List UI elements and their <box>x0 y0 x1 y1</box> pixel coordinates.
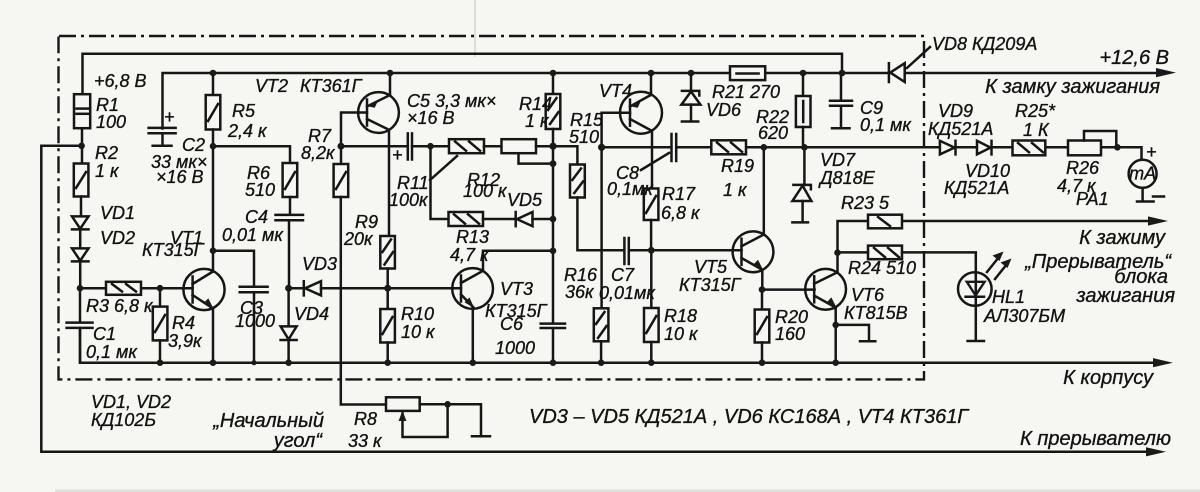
resistor R13 <box>449 212 484 226</box>
wire: outer loop to interrupter (left frame and bottom line) <box>41 146 1158 452</box>
capacitor C8 <box>672 134 677 161</box>
svg-text:1 к: 1 к <box>525 111 550 131</box>
wire: R22 top <box>802 73 805 96</box>
capacitor C9 <box>830 73 852 128</box>
resistor R22 <box>796 96 811 127</box>
svg-text:0,01 мк: 0,01 мк <box>222 225 284 245</box>
wire: VD3 line to VT3 base <box>289 287 461 290</box>
svg-text:VD3: VD3 <box>302 254 337 274</box>
meter PA1 <box>1129 142 1164 202</box>
capacitor C3 <box>240 287 268 363</box>
svg-text:620: 620 <box>758 123 788 143</box>
svg-text:mA: mA <box>1129 164 1156 184</box>
svg-text:R24 510: R24 510 <box>848 258 916 278</box>
svg-text:C6: C6 <box>500 314 524 334</box>
diode VD3 <box>304 281 321 295</box>
svg-text:КД521А: КД521А <box>944 178 1009 198</box>
wire: R11 to R12 <box>484 145 502 148</box>
wire: to ignition coil terminal <box>902 220 1160 223</box>
svg-text:КД102Б: КД102Б <box>91 410 156 430</box>
resistor R23 <box>868 215 902 229</box>
svg-text:0,1мк: 0,1мк <box>607 179 654 199</box>
wire: R12 bottom tap <box>519 153 554 163</box>
resistor R18 <box>644 250 659 362</box>
capacitor C2 (electrolytic) <box>149 107 176 146</box>
svg-text:R13: R13 <box>456 227 489 247</box>
wire: R4 branch <box>159 288 162 306</box>
wire: VD2 to base line node <box>79 261 82 288</box>
svg-text:+: + <box>392 145 403 165</box>
svg-text:+12,6 В: +12,6 В <box>1099 47 1169 69</box>
svg-text:510: 510 <box>245 180 275 200</box>
svg-text:2,4 к: 2,4 к <box>227 121 268 141</box>
svg-text:R21 270: R21 270 <box>712 82 780 102</box>
resistor R3 <box>106 282 141 295</box>
wire: R6 to C4 <box>289 197 292 214</box>
resistor R25 <box>1013 141 1046 156</box>
svg-text:0,1 мк: 0,1 мк <box>86 342 138 362</box>
svg-text:КТ361Г: КТ361Г <box>300 76 363 96</box>
svg-text:зажигания: зажигания <box>1075 285 1175 307</box>
svg-text:+: + <box>164 107 175 127</box>
wire: VD1 to VD2 <box>79 229 82 248</box>
wire: R15 bottom to C7 line <box>577 198 624 251</box>
diode VD8 <box>889 63 905 82</box>
wire: R24 right to LED <box>902 252 976 274</box>
resistor R2 <box>74 164 89 197</box>
wire: R16 column <box>600 147 603 308</box>
diode VD1 <box>72 216 89 229</box>
svg-text:R3 6,8 к: R3 6,8 к <box>86 296 154 316</box>
svg-text:R18: R18 <box>664 306 697 326</box>
transistor VT6 <box>805 269 846 310</box>
svg-text:1000: 1000 <box>495 338 535 358</box>
svg-text:+6,8 В: +6,8 В <box>94 71 147 91</box>
resistor R16 <box>594 308 609 362</box>
svg-text:4,7 к: 4,7 к <box>450 245 490 265</box>
svg-text:Д818Е: Д818Е <box>818 168 876 188</box>
svg-text:3,9к: 3,9к <box>168 331 203 351</box>
wire: R5 bottom column to VT1 collector <box>212 130 215 251</box>
capacitor C4 <box>276 215 304 288</box>
svg-text:33 к: 33 к <box>348 431 383 451</box>
resistor R17 <box>644 189 659 221</box>
wire: R22 bottom to output line <box>802 127 805 147</box>
transistor VT1 <box>183 269 224 310</box>
svg-text:R19: R19 <box>721 156 754 176</box>
svg-text:0,1 мк: 0,1 мк <box>860 115 912 135</box>
wire: R2 to VD1 <box>80 197 83 217</box>
svg-text:КТ315Г: КТ315Г <box>142 240 205 260</box>
wire: +12.6V top rail <box>83 54 843 95</box>
svg-text:VT4: VT4 <box>599 81 632 101</box>
transistor VT2 <box>358 92 399 133</box>
svg-text:R5: R5 <box>232 101 256 121</box>
wire: R5 top <box>212 73 215 95</box>
wire: R1-R2 junction branch <box>81 128 84 164</box>
svg-text:VD8 КД209А: VD8 КД209А <box>932 34 1037 54</box>
svg-text:1 к: 1 к <box>723 180 748 200</box>
capacitor C6 <box>541 324 565 363</box>
dash-dot enclosure border <box>59 36 925 379</box>
svg-text:510: 510 <box>569 127 599 147</box>
svg-text:К замку зажигания: К замку зажигания <box>985 76 1160 98</box>
wire: R12 to R14 column <box>536 145 553 148</box>
svg-text:VT3: VT3 <box>500 279 533 299</box>
wire: R6 branch line <box>213 146 290 163</box>
wire: R4 to rail <box>159 340 162 362</box>
zener diode VD6 <box>681 73 700 122</box>
R11 label leader <box>430 156 457 180</box>
svg-text:R4: R4 <box>172 313 195 333</box>
resistor R9 <box>380 236 395 269</box>
svg-text:VD5: VD5 <box>507 190 543 210</box>
wire: VT6 base line <box>762 288 815 291</box>
svg-text:VD3 – VD5 КД521А , VD6 КС16: VD3 – VD5 КД521А , VD6 КС168А , VT4 КТ36… <box>529 406 970 428</box>
capacitor C7 <box>624 238 628 264</box>
wire: C8/R19 output line <box>602 147 1142 160</box>
svg-text:VD6: VD6 <box>706 100 742 120</box>
svg-text:VD4: VD4 <box>294 304 329 324</box>
svg-text:100к: 100к <box>389 190 429 210</box>
wire: VT3 collector to R14 column <box>483 251 553 271</box>
wire: C5 to R11 <box>412 145 449 148</box>
svg-text:АЛ307БМ: АЛ307БМ <box>983 306 1065 326</box>
resistor R14 <box>546 94 561 129</box>
svg-text:C7: C7 <box>611 265 635 285</box>
transistor VT3 <box>452 268 493 309</box>
wire: VT2 base line <box>341 113 367 147</box>
svg-text:R17: R17 <box>662 184 696 204</box>
wire: R7 bottom column down to R8 <box>341 197 386 405</box>
svg-text:100: 100 <box>96 112 126 132</box>
svg-text:VD2: VD2 <box>100 228 135 248</box>
svg-text:R26: R26 <box>1066 158 1100 178</box>
resistor R1 <box>74 94 90 128</box>
svg-text:R25*: R25* <box>1015 101 1056 121</box>
resistor R20 <box>755 290 770 363</box>
svg-text:VT2: VT2 <box>255 76 288 96</box>
scan fold mark <box>474 0 476 57</box>
ground: VT6 emitter chassis stub <box>836 325 876 341</box>
wire: R26 shunt loop <box>1084 131 1116 147</box>
capacitor C1 <box>67 288 93 363</box>
svg-text:C1: C1 <box>93 324 116 344</box>
svg-text:×16 В: ×16 В <box>156 167 204 187</box>
svg-text:C4: C4 <box>245 207 268 227</box>
line end arrowheads <box>1156 68 1176 77</box>
capacitor C5 <box>392 133 412 165</box>
svg-text:R8: R8 <box>354 409 377 429</box>
wire: VT3 emitter to rail <box>472 308 475 363</box>
svg-text:К зажиму: К зажиму <box>1079 227 1166 249</box>
transistor VT4 <box>620 92 662 134</box>
svg-text:К прерывателю: К прерывателю <box>1020 428 1171 450</box>
resistor R5 <box>206 95 221 130</box>
svg-text:×16 В: ×16 В <box>407 108 455 128</box>
svg-text:HL1: HL1 <box>992 287 1025 307</box>
diode VD2 <box>72 248 89 261</box>
VD8 label leader <box>907 47 930 68</box>
resistor R15 <box>570 165 585 198</box>
wire: VT5 collector up to output line <box>763 147 766 234</box>
svg-text:PA1: PA1 <box>1076 189 1109 209</box>
resistor R24 <box>868 246 902 260</box>
wire: VT2 collector down to R9 <box>388 130 391 236</box>
HL1 emission arrows <box>987 252 1012 280</box>
svg-text:10 к: 10 к <box>401 322 436 342</box>
wire: bottom common rail / to chassis <box>80 328 1164 363</box>
resistor R11 <box>449 139 484 153</box>
svg-text:100 к: 100 к <box>463 181 508 201</box>
LED HL1 <box>958 272 992 341</box>
wire: VT1 collector to node <box>212 251 215 272</box>
diode VD4 <box>281 288 297 363</box>
wire: VT2 emitter to rail <box>389 73 392 95</box>
svg-text:1 К: 1 К <box>1023 120 1050 140</box>
resistor R4 <box>153 307 168 341</box>
svg-text:0,01мк: 0,01мк <box>599 283 656 303</box>
svg-text:160: 160 <box>775 324 805 344</box>
wire: VT6 collector up <box>836 253 839 273</box>
svg-text:VD1, VD2: VD1, VD2 <box>91 392 171 412</box>
wire: VT4 base branch <box>602 113 630 148</box>
wire: R14 column down to C6 <box>552 129 555 323</box>
svg-text:VT5: VT5 <box>694 257 728 277</box>
diode VD9 <box>940 141 956 155</box>
svg-text:1 к: 1 к <box>95 161 120 181</box>
svg-text:R23 5: R23 5 <box>841 193 890 213</box>
svg-text:VD7: VD7 <box>820 150 856 170</box>
wire: VT6 emitter down to rail <box>834 308 837 363</box>
resistor R21 <box>730 66 765 80</box>
resistor R26 <box>1068 141 1101 156</box>
wire: R24 left to VT6 collector node <box>838 251 869 254</box>
svg-text:угол“: угол“ <box>272 430 324 452</box>
resistor R6 <box>283 163 298 197</box>
svg-text:VD9: VD9 <box>938 101 973 121</box>
wire: R13 to VD5 <box>483 218 516 221</box>
wire: VT4 emitter to rail <box>650 73 653 95</box>
wire: VT4 collector down to R17 <box>651 131 654 189</box>
wire: R15 branch from R14 node <box>553 146 577 164</box>
resistor R7 <box>334 146 349 197</box>
potentiometer R8 <box>386 397 490 437</box>
scan bottom edge <box>55 490 1200 492</box>
wire: VT5 emitter to R20/VT6 node <box>761 270 764 290</box>
wire: C7 to R17/R18 node and VT5 base <box>629 249 742 252</box>
wire: collector node to C3 <box>213 251 254 286</box>
C8 label leader <box>641 153 669 170</box>
svg-text:10 к: 10 к <box>664 324 699 344</box>
svg-text:К корпусу: К корпусу <box>1063 367 1154 389</box>
diode VD5 <box>516 212 533 226</box>
wire: +6.8V rail <box>163 73 1167 129</box>
resistor R12 <box>502 139 537 153</box>
wire: R17 bottom to node <box>650 220 653 250</box>
transistor VT5 <box>733 231 774 272</box>
diode VD10 <box>977 141 992 155</box>
svg-text:КТ815В: КТ815В <box>844 303 908 323</box>
svg-text:1000: 1000 <box>235 311 275 331</box>
svg-text:+: + <box>1146 142 1157 162</box>
wire: VT1 emitter to rail <box>212 309 215 363</box>
svg-text:6,8 к: 6,8 к <box>661 203 701 223</box>
svg-text:R2: R2 <box>95 143 118 163</box>
resistor R10 <box>380 288 395 363</box>
svg-text:36к: 36к <box>565 282 595 302</box>
wire: VT1 base line <box>80 287 193 290</box>
wire: R23 left branch <box>838 221 869 253</box>
wire: C5 coupling line (VT2 base node to R11-R12) <box>341 145 407 148</box>
wire: R14 top <box>552 73 555 94</box>
svg-text:КД521А: КД521А <box>928 119 993 139</box>
zener diode VD7 <box>792 147 811 222</box>
resistor R19 <box>711 140 746 154</box>
svg-text:„Начальный: „Начальный <box>212 410 324 432</box>
svg-text:20к: 20к <box>343 229 374 249</box>
wire: R9 to VD3 line <box>386 269 389 289</box>
svg-text:VD1: VD1 <box>100 203 135 223</box>
svg-text:КТ315Г: КТ315Г <box>679 275 742 295</box>
svg-text:VT6: VT6 <box>851 285 885 305</box>
wire: R13 branch <box>431 146 449 219</box>
svg-text:R10: R10 <box>401 304 434 324</box>
svg-text:8,2к: 8,2к <box>301 143 336 163</box>
wire: VD5 to R14 column <box>533 218 554 221</box>
